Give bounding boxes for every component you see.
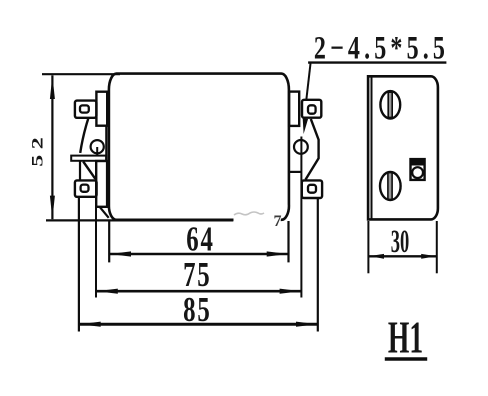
right mounting wing: [306, 119, 319, 180]
dim 64 arrow right: [267, 251, 288, 256]
dim 75 arrow left: [96, 289, 117, 294]
left bottom tab hole: [81, 185, 89, 192]
right hole centre line / 75 extension: [300, 137, 302, 298]
dim 85 arrow right: [296, 322, 317, 327]
dim 85 left extension: [78, 198, 80, 332]
dim 85 arrow left: [79, 322, 100, 327]
connector body: [411, 159, 425, 180]
left bracket lower diagonal: [83, 162, 95, 179]
view label underline: [385, 357, 427, 361]
bottom screw head: [380, 172, 401, 200]
dim 52 dimension line: [51, 75, 53, 219]
svg-text:75: 75: [183, 255, 211, 294]
left ground bar: [71, 156, 106, 161]
dim 75 left extension: [95, 198, 97, 298]
right top terminal tab: [302, 100, 321, 118]
left hole slot tick: [96, 147, 98, 156]
dim 75 arrow right: [280, 289, 301, 294]
left bottom terminal tab: [75, 180, 97, 196]
side view outline: [368, 76, 438, 219]
dim 75 dimension line: [96, 290, 301, 293]
right bottom terminal tab: [302, 180, 322, 198]
svg-text:H1: H1: [388, 313, 423, 364]
dim 64 left extension: [108, 221, 110, 262]
leader underline: [308, 61, 446, 63]
dim 85 right extension: [317, 199, 319, 332]
bottom screw slot: [388, 173, 392, 200]
svg-text:7: 7: [274, 213, 282, 230]
dim 52 top extension line: [42, 73, 120, 75]
dim 30 arrow right: [421, 254, 436, 259]
svg-text:30: 30: [391, 223, 409, 260]
svg-text:2−4.5*5.5: 2−4.5*5.5: [314, 31, 449, 66]
dim 64 right extension: [287, 221, 289, 262]
left mounting hole: [91, 140, 104, 153]
left top tab hole: [80, 105, 89, 112]
dim 52 arrow up: [50, 75, 55, 99]
dim 64 dimension line: [110, 253, 289, 256]
left bracket foot diagonal: [100, 207, 109, 218]
svg-text:64: 64: [186, 219, 214, 258]
left bottom terminal base: [96, 161, 107, 207]
right bottom tab hole: [308, 185, 316, 193]
dim 30 right extension: [436, 221, 438, 273]
dim 30 left extension: [367, 221, 369, 273]
filter body outline (front view): [109, 74, 289, 220]
dim 85 dimension line: [79, 323, 317, 326]
right top tab hole: [308, 105, 316, 113]
left bracket base connecting edge: [105, 126, 107, 162]
top screw slot: [388, 92, 392, 117]
svg-text:52: 52: [29, 132, 46, 167]
left bracket vertical below bar: [79, 161, 81, 180]
connector top band: [411, 159, 425, 165]
right mounting hole: [294, 140, 308, 154]
right bracket horizontal edge: [289, 171, 301, 173]
watermark squiggle: [234, 212, 264, 215]
dim 52 arrow down: [50, 196, 55, 220]
left top terminal tab: [75, 101, 97, 118]
connector circle: [412, 167, 423, 178]
svg-text:85: 85: [183, 290, 211, 329]
dim 64 arrow left: [110, 251, 131, 256]
left top terminal base: [96, 92, 107, 126]
left bracket upper diagonal: [80, 119, 88, 153]
dim 30 arrow left: [369, 254, 384, 259]
top screw head: [380, 91, 400, 118]
leader diagonal: [306, 64, 310, 101]
leader arrowhead: [303, 118, 308, 134]
right top terminal base: [289, 92, 299, 126]
dim 52 bottom extension line: [46, 219, 233, 221]
side view flange inner line: [371, 76, 373, 219]
dim 30 dimension line: [369, 255, 437, 257]
